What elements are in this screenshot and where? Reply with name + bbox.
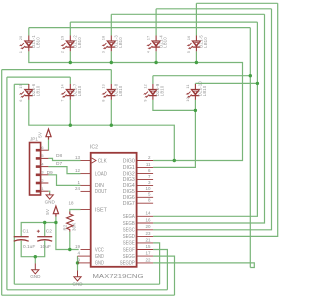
wire: row2 anode staircase [14,83,28,85]
svg-text:LB10: LB10 [35,37,40,48]
svg-text:5V: 5V [38,132,43,138]
svg-text:GND: GND [95,261,104,267]
wire: C2 top lead [44,223,46,237]
pin 22 SEGDP [137,262,154,264]
pin 4 GND [78,255,91,257]
svg-text:23: 23 [145,231,151,236]
LED DZ1-9 [145,84,157,100]
JP1 pin 5 [36,157,41,160]
svg-text:GND: GND [30,274,41,279]
wire: row2 cols1-3 cathode line to DIG0 [29,100,175,161]
pin 8 DIG7 [137,202,154,204]
supply 5V (VCC) [53,206,58,216]
svg-text:7: 7 [61,99,65,101]
wire: caps bottom line [21,241,45,257]
wire: caps gnd drop [34,257,36,264]
junction DZ1-10/v2 [256,82,259,85]
svg-text:DIG7: DIG7 [123,201,135,207]
wire: row2 anode staircase [7,76,70,78]
pin 7 DIG3 [137,178,154,180]
LED DZ1-7 [62,84,74,100]
svg-text:20: 20 [145,224,151,229]
pin 18 ISET [81,209,91,211]
wire: bottom line [7,289,168,291]
LED DZ1-4 [148,36,160,52]
wire: DZ1-2 anode up [69,22,71,35]
wire: net D7 JP1 pin4 to LOAD [48,167,80,174]
svg-text:LB10: LB10 [35,85,40,96]
svg-text:SEGC: SEGC [123,228,135,234]
wire: pin17 SEGG down-leg [153,256,174,295]
svg-text:D8: D8 [56,153,62,159]
junction row2 left bus [110,124,113,127]
supply 5V (JP1) [46,129,51,139]
svg-text:SEGE: SEGE [123,241,136,247]
wire: net D9 JP1 pin3 to DIN [48,175,80,186]
wire: v4 SEGC from pin20 up to DZ1-4 [153,9,271,230]
svg-text:17: 17 [147,36,151,41]
pin 5 DIG6 [137,196,154,198]
pin 17 SEGG [137,255,154,257]
svg-text:6: 6 [41,145,43,150]
wire: DIG1 net DZ1-10 down to pin11 [153,100,195,168]
svg-text:5V: 5V [45,209,50,215]
wire: top net segment col5 [196,2,277,4]
svg-text:DIG0: DIG0 [123,158,135,164]
svg-text:0.1uF: 0.1uF [23,244,35,250]
JP1 pin 1 [36,190,41,193]
wire: pin15 SEGF down-leg [153,250,167,290]
svg-text:LB10: LB10 [202,85,207,96]
svg-text:17: 17 [145,251,151,256]
ground (JP1 pin1) [46,193,53,199]
junction row1 bus [110,61,113,64]
wire: top net segment col4 [156,8,271,10]
wire: top net segment col1 [29,27,251,29]
connector JP1 pin header [30,143,41,196]
wire: net D8 JP1 pin5 to CLK [48,158,80,160]
wire: DZ1-10 anode up [194,82,196,85]
svg-text:19: 19 [75,244,81,249]
svg-text:18: 18 [102,36,106,41]
svg-text:5: 5 [187,51,191,53]
svg-text:30K: 30K [72,222,77,231]
junction R2/VCC [68,248,71,251]
wire: v2 SEGA from pin14 up to DZ1-2,DZ1-10 [153,22,257,216]
svg-text:ISET: ISET [95,207,107,213]
wire: DZ1-5 anode up [195,3,197,35]
wire: IC gnd pins down [77,256,79,270]
svg-text:14: 14 [145,211,151,216]
pin 13 CLK [81,160,91,162]
svg-text:18: 18 [68,201,74,206]
svg-text:1: 1 [19,51,23,53]
svg-text:GND: GND [45,199,56,204]
junction on pin2 wire [173,159,176,162]
svg-text:20: 20 [19,36,23,41]
svg-text:6: 6 [19,99,23,101]
LED DZ1-2 [62,36,74,52]
svg-text:3: 3 [102,51,106,53]
junction row1 bus [154,61,157,64]
svg-text:LB10: LB10 [203,37,208,48]
wire: bottom line [14,283,159,285]
wire: DZ1-4 anode up [155,9,157,36]
svg-text:LB10: LB10 [159,85,164,96]
svg-text:IC2: IC2 [90,145,98,151]
svg-text:LB10: LB10 [118,37,123,48]
svg-text:2: 2 [41,178,43,183]
wire: R2 bottom to VCC line [69,232,71,250]
svg-text:13: 13 [75,155,81,160]
svg-text:MAX7219CNG: MAX7219CNG [93,274,144,280]
LED DZ1-5 [189,36,201,52]
junction row1 bus [69,61,72,64]
wire: DZ1-3 anode up [110,14,112,35]
pin 16 SEGB [137,222,154,224]
ground (capacitors) [32,263,39,274]
junction C2 top [43,221,46,224]
wire: vertical net v1 (pin22/SEGDP to DZ1-1,DZ1-9) [249,28,251,268]
wire: JP1 pin6 to 5V [47,140,49,151]
pin 15 SEGF [137,249,154,251]
wire: left frame vertical [6,77,8,290]
JP1 pin 2 [36,182,41,185]
pin 11 DIG1 [137,166,154,168]
svg-text:22: 22 [145,257,151,262]
svg-text:SEGA: SEGA [123,214,136,220]
svg-text:12: 12 [75,168,81,173]
svg-text:R2: R2 [62,224,67,230]
wire: DZ1-1 anode up [28,28,30,36]
svg-text:LB10: LB10 [77,85,82,96]
svg-text:15: 15 [145,244,151,249]
svg-text:16: 16 [187,36,191,41]
svg-text:SEGB: SEGB [123,221,136,227]
pin 10 DIG5 [137,190,154,192]
svg-text:11: 11 [146,162,151,167]
junction row1 bus [195,61,198,64]
pin 9 GND [78,262,91,264]
wire: row2 LED anode drop [28,83,30,85]
svg-text:5: 5 [41,153,43,158]
pin 3 DIG4 [137,184,154,186]
svg-text:19: 19 [61,36,65,40]
junction row2 left bus [69,124,72,127]
LED DZ1-1 [21,36,33,52]
svg-text:LB10: LB10 [77,37,82,48]
junction caps gnd [34,255,37,258]
LED DZ1-8 [103,84,115,100]
svg-text:DIG1: DIG1 [123,165,135,171]
pin 2 DIG0 [137,160,154,162]
wire: pin22 SEGDP hook to v1 [153,263,254,268]
pin 24 DOUT [81,190,91,192]
junction DZ1-9/v1 [249,74,252,77]
LED DZ1-3 [103,36,115,52]
svg-text:SEGDP: SEGDP [120,261,136,267]
svg-text:10: 10 [145,186,151,191]
svg-text:D9: D9 [47,170,53,176]
wire: left frame vertical [1,70,3,296]
pin 12 LOAD [81,173,91,175]
resistor R2 30K [67,212,73,232]
svg-text:SEGG: SEGG [123,254,135,260]
svg-text:3: 3 [41,170,43,175]
svg-text:8: 8 [102,99,106,101]
wire: 5V to C1 top [21,223,56,237]
wire: JP1 pin1 to GND [48,191,49,193]
svg-text:D7: D7 [56,161,62,167]
pin 20 SEGC [137,229,154,231]
wire: VCC line to 5V [56,217,79,250]
pin 21 SEGE [137,242,154,244]
clock input symbol on CLK pin [92,158,96,163]
LED DZ1-10 [188,84,200,100]
svg-text:2: 2 [61,51,65,53]
svg-text:C2: C2 [46,228,52,234]
capacitor C1 0.1uF [14,236,29,238]
wire: DZ1-9 anode up [152,76,154,84]
wire: row2 LED cathode drop [69,100,71,125]
pin 19 VCC [81,249,91,251]
wire: v3 SEGB from pin16 up to DZ1-3 [153,14,264,223]
pin 1 DIN [81,184,91,186]
junction 5V branch [54,221,57,224]
svg-text:LOAD: LOAD [95,171,107,177]
svg-text:10: 10 [186,97,190,102]
junction pin4/pin9 gnd [76,261,79,264]
svg-text:CLK: CLK [98,158,108,164]
svg-text:GND: GND [72,281,83,286]
svg-text:DOUT: DOUT [95,189,107,195]
svg-text:21: 21 [145,237,151,242]
svg-text:15: 15 [19,84,23,89]
capacitor C2 10uF [37,236,52,238]
wire: v5 SEGD from pin23 up to DZ1-5 [153,3,278,236]
wire: ISET to R2 top [70,210,81,212]
svg-text:16: 16 [145,217,151,222]
wire: DIG0 net row1 cathode bus to pin2 [29,51,243,160]
wire: row2 LED anode drop [110,70,112,84]
svg-text:10uF: 10uF [40,244,51,250]
wire: LED cathode drop to bus1 [155,51,157,62]
svg-text:LB10: LB10 [118,85,123,96]
svg-text:13: 13 [102,84,106,89]
svg-text:LB10: LB10 [163,37,168,48]
pin 6 DIG2 [137,173,154,175]
svg-text:9: 9 [143,99,147,101]
svg-text:12: 12 [143,84,147,89]
svg-text:14: 14 [61,84,65,88]
svg-text:11: 11 [186,84,190,88]
wire: row2 anode staircase [2,69,112,71]
wire: DZ1-9 anode to v1 [153,75,250,77]
wire: pin21 SEGE down-leg [153,243,160,284]
ground (IC) [74,271,81,282]
svg-text:4: 4 [147,51,151,53]
svg-text:C1: C1 [23,228,29,234]
wire: LED cathode drop to bus1 [195,51,197,62]
svg-text:24: 24 [75,186,81,191]
pin 14 SEGA [137,215,154,217]
wire: bottom line [2,294,175,296]
svg-text:GND: GND [95,254,104,260]
pin 23 SEGD [137,235,154,237]
junction bus2/DIG1 [194,109,197,112]
JP1 pin 3 [36,174,41,177]
wire: top net segment col2 [70,21,257,23]
svg-text:VCC: VCC [95,247,104,253]
wire: top net segment col3 [111,13,264,15]
JP1 pin 4 [36,165,41,168]
wire: DZ1-10 anode to v2 [195,82,257,84]
wire: LED cathode drop to bus1 [69,51,71,62]
svg-text:SEGD: SEGD [123,234,135,240]
op-amp/IC U1: MAX7219CNG IC2 box [91,153,137,267]
wire: left frame vertical [13,84,15,284]
wire: LED cathode drop to bus1 [110,51,112,62]
svg-text:SEGF: SEGF [123,247,135,253]
wire: DZ1-9 cathode to bus2 [153,100,196,111]
LED DZ1-6 [21,84,33,100]
wire: row2 LED anode drop [69,77,71,84]
JP1 pin 6 [36,149,41,152]
wire: row2 LED cathode drop [110,100,112,125]
svg-text:1: 1 [41,186,43,191]
